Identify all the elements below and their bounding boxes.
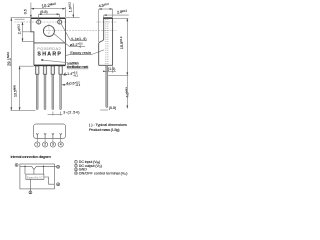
svg-text:(1.3): (1.3) [108, 67, 115, 71]
svg-text:1: 1 [36, 143, 38, 147]
svg-text:identification mark: identification mark [67, 65, 89, 69]
svg-text:Product mass (1.5g): Product mass (1.5g) [89, 127, 120, 132]
svg-text:3: 3 [52, 143, 54, 147]
svg-text:3-(2.54): 3-(2.54) [63, 111, 79, 115]
svg-text:Specific IC: Specific IC [27, 175, 43, 179]
svg-text:PQ05RDA2: PQ05RDA2 [37, 46, 61, 51]
svg-text:0.5: 0.5 [23, 9, 27, 14]
svg-text:2: 2 [44, 143, 46, 147]
svg-text:4-(ø1.4): 4-(ø1.4) [71, 36, 88, 41]
svg-text:ON/OFF control terminal (VC): ON/OFF control terminal (VC) [79, 171, 128, 176]
svg-text:(0.5): (0.5) [109, 106, 116, 110]
svg-text:4: 4 [60, 143, 62, 147]
svg-text:( ) : Typical dimensions: ( ) : Typical dimensions [89, 122, 127, 127]
svg-text:Internal connection diagram: Internal connection diagram [11, 154, 52, 159]
svg-text:Epoxy resin: Epoxy resin [70, 50, 91, 55]
